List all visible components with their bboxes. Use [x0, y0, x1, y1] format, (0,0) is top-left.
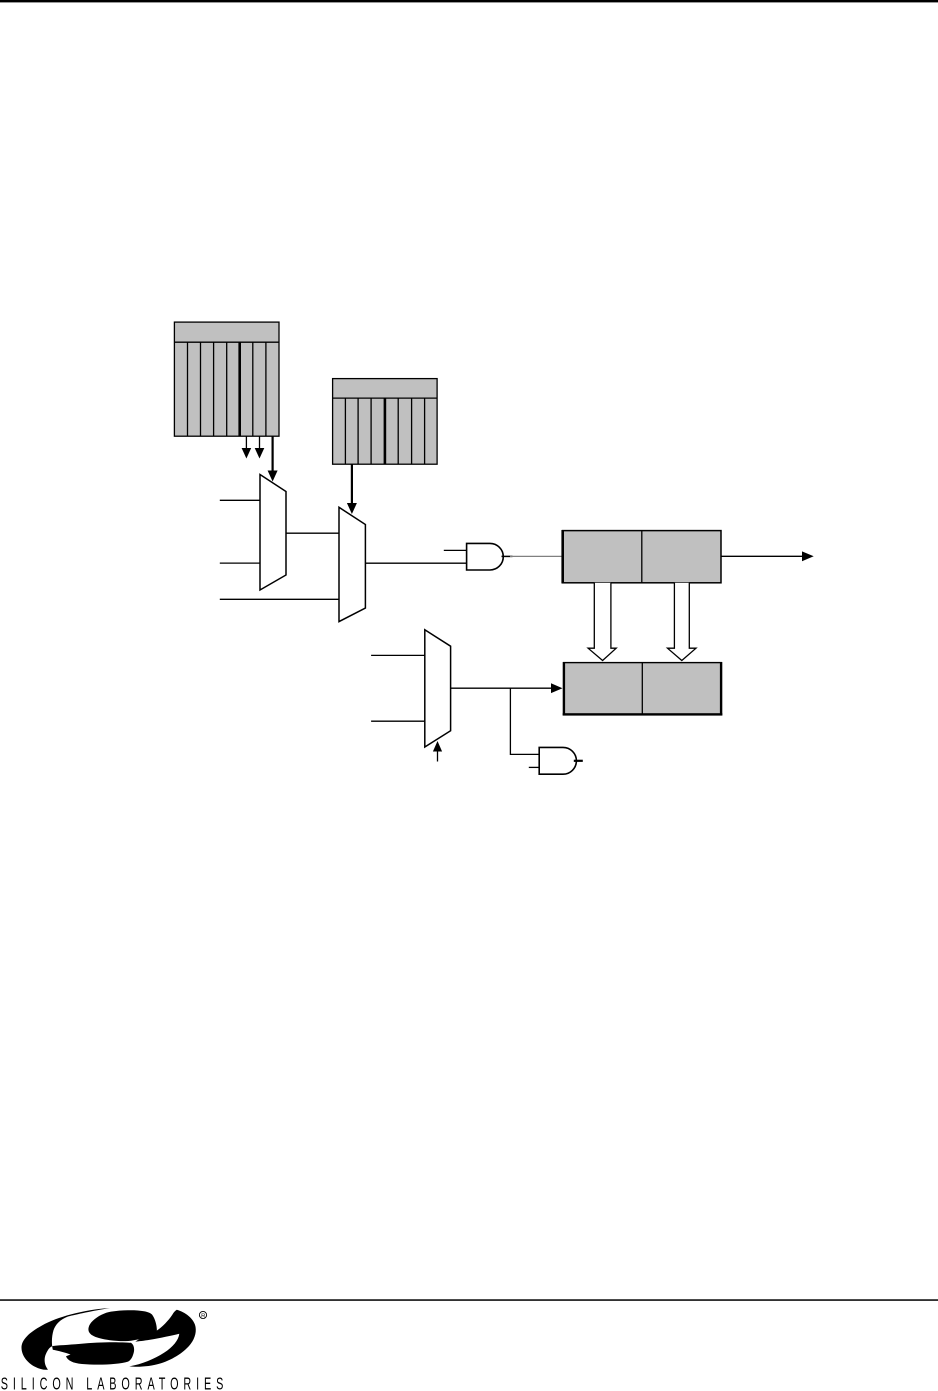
mux M3 (reload source select)	[425, 630, 451, 747]
top page rule	[0, 0, 938, 2]
wire: CKCON prescale arrow into mux M1	[268, 436, 278, 481]
svg-text:R: R	[201, 1314, 205, 1320]
Silicon Laboratories swirl logo	[22, 1308, 196, 1370]
wire: TMOD mode arrow into mux M2	[347, 464, 357, 514]
hollow reload arrow A (TL0 to TCON)	[588, 583, 616, 661]
AND gate G1 (clock gate)	[467, 543, 504, 570]
wire: G2 output stub	[574, 760, 583, 762]
wire: TH0 overflow output arrow	[721, 551, 814, 561]
wire: mux M2 lower input	[220, 598, 339, 600]
bottom page rule	[0, 1299, 938, 1301]
wire: G1 output stub	[502, 555, 513, 557]
wire: mux M1 output to mux M2	[286, 532, 339, 534]
logo left crescent with top tail, arm and bottom mass	[22, 1308, 135, 1370]
wire: mux M2 output to AND gate G1	[365, 562, 466, 564]
wire: gray clock line into TL0	[510, 555, 563, 557]
AND gate G2 (reload enable)	[539, 747, 576, 774]
wire: CKCON bit arrow 2	[255, 436, 265, 458]
wire: CKCON bit arrow 1	[242, 436, 252, 458]
wire: mux M3 output arrow into reload box	[451, 683, 563, 693]
wire: AND gate G1 upper input stub	[444, 549, 467, 551]
wire: junction drop to AND gate G2	[510, 688, 539, 754]
wire: AND gate G2 lower input stub	[529, 766, 539, 768]
logo central blob	[88, 1310, 156, 1341]
register pair TL0/TH0 (upper counter box)	[561, 530, 721, 583]
register TMOD bit-field box (8 cells with header)	[333, 379, 438, 465]
wire: mux M3 select up-arrow	[433, 741, 442, 762]
wire: mux M1 input 2	[220, 562, 260, 564]
svg-text:SILICON LABORATORIES: SILICON LABORATORIES	[1, 1375, 228, 1391]
logo right swoosh with bridge	[129, 1310, 195, 1367]
wire: mux M3 input 1	[371, 654, 425, 656]
wire: mux M1 input 1	[220, 499, 260, 501]
wire: mux M3 input 2	[371, 720, 425, 722]
mux M2 (clock select)	[339, 507, 365, 621]
hollow reload arrow B (TH0 to TCON)	[668, 583, 697, 661]
register CKCON bit-field box (left, 8 cells with header)	[174, 322, 279, 436]
mux M1 (clock source select)	[260, 475, 286, 591]
register pair RCAP2L/RCAP2H (lower reload box)	[563, 662, 723, 716]
logo registered trademark symbol	[199, 1311, 206, 1319]
